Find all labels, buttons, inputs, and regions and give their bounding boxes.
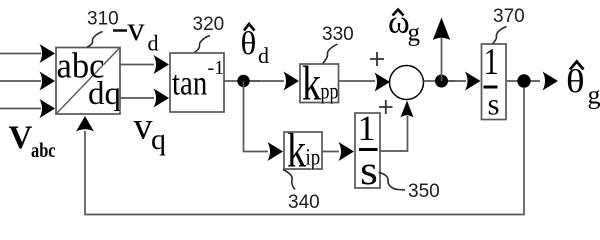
block 320 arctan [170,53,224,112]
leader 370 [492,27,507,45]
wire input c [0,108,41,110]
node theta-g junction [517,74,530,87]
block 330 kpp [300,56,339,111]
leader 320 [194,36,210,53]
wire input b [0,80,41,82]
label omega-g [388,5,421,47]
label -vd [113,11,159,56]
node omega junction [435,75,448,88]
label theta-d [241,24,270,68]
svg-text:v: v [128,11,145,48]
wire feedback [85,88,524,215]
svg-text:340: 340 [288,192,320,213]
label Vabc [9,120,56,163]
svg-text:d: d [148,31,159,56]
svg-text:dq: dq [88,76,121,112]
svg-text:-1: -1 [208,57,225,79]
wire 350 to summer bottom [380,116,408,151]
plus upper [370,52,384,66]
wire node to integrator 370 [448,80,466,82]
wire summer to node [424,80,456,82]
wire kip to integrator 350 [322,151,339,153]
svg-text:ω: ω [388,5,410,41]
wire node to kpp [250,80,284,82]
wire kpp to summer [339,80,376,82]
summer circle [390,66,424,100]
wire vd [120,64,154,66]
svg-text:v: v [134,106,153,148]
plus lower [379,100,393,114]
block 340 kip [284,123,322,178]
svg-text:1: 1 [358,108,376,148]
wire 370 to output node [506,80,540,82]
svg-text:g: g [408,20,421,47]
arrow omega up [433,18,450,41]
svg-text:pp: pp [321,80,339,105]
arrow feedback into abc/dq [76,116,94,132]
block 370 integrator [482,41,507,122]
wire branch down from theta-d node [244,81,269,152]
leader 330 [323,44,338,63]
arrow into kpp [284,72,300,91]
svg-text:θ: θ [566,63,585,100]
svg-text:k: k [302,56,321,111]
arrow into summer [375,73,391,92]
svg-text:320: 320 [193,14,225,35]
wire input a [0,53,41,55]
wire omega up [441,38,443,81]
block 310 abc/dq transform [56,46,121,114]
svg-text:q: q [151,123,166,156]
svg-text:V: V [9,120,33,156]
wire vq [120,97,154,99]
label theta-g [566,62,600,110]
svg-text:330: 330 [322,24,354,45]
svg-text:abc: abc [31,139,56,162]
svg-text:s: s [360,148,378,193]
svg-text:370: 370 [493,6,525,27]
svg-text:d: d [258,43,269,68]
label vq [134,106,167,157]
arrow into 350 [339,142,355,161]
svg-text:s: s [488,87,500,122]
svg-text:1: 1 [484,41,499,83]
leader 340 [283,170,295,190]
arrow input a [40,44,56,63]
arrow output theta-g [543,72,559,91]
svg-text:θ: θ [241,26,257,62]
arrow into summer bottom [401,101,414,118]
svg-text:g: g [588,81,600,110]
arrow input b [40,72,56,91]
arrow into kip [268,142,284,161]
arrow vd [154,55,170,74]
leader 310 [87,32,103,48]
arrow input c [40,99,56,118]
svg-text:ip: ip [306,144,321,170]
block 350 integrator [355,108,380,193]
node theta-d junction [237,75,249,87]
svg-text:350: 350 [408,181,440,202]
svg-text:310: 310 [87,9,119,30]
svg-text:tan: tan [172,63,207,102]
leader 350 [379,173,406,190]
svg-text:k: k [287,123,306,178]
wire tan to node [224,80,260,82]
arrow into 370 [465,72,481,91]
arrow vq [154,89,170,108]
